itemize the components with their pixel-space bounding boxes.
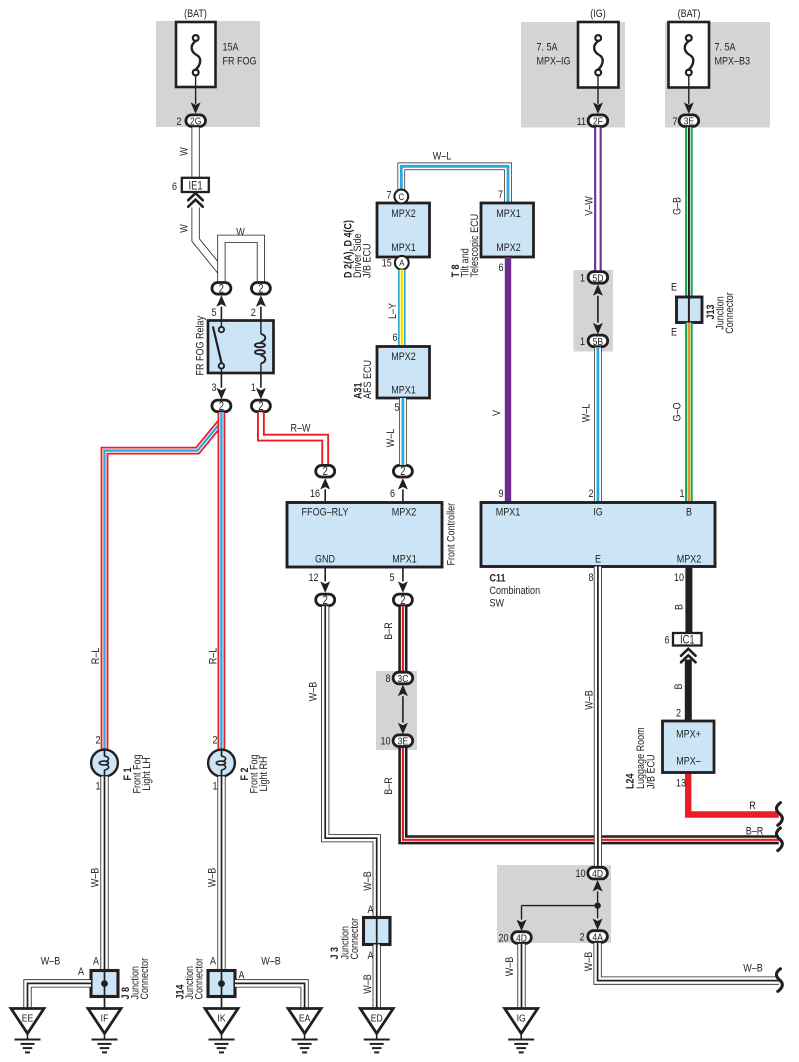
svg-text:Light LH: Light LH xyxy=(141,757,153,791)
pin 1 F1 xyxy=(95,781,100,793)
splice chevron below IC1 xyxy=(681,649,696,663)
svg-text:1: 1 xyxy=(212,781,217,793)
wire W-B from J3 to ED xyxy=(373,945,381,1009)
svg-text:R: R xyxy=(749,800,756,812)
label W upper xyxy=(179,147,191,156)
svg-text:2: 2 xyxy=(212,735,217,747)
wire fuse to connector 2G xyxy=(191,75,201,114)
connector 2 at FC MPX2 xyxy=(393,465,412,502)
ground ED xyxy=(360,1009,393,1053)
svg-text:3E: 3E xyxy=(684,116,695,128)
svg-text:8: 8 xyxy=(588,572,593,584)
svg-text:2: 2 xyxy=(176,116,181,128)
combination switch C11 box xyxy=(481,503,715,567)
label G-O xyxy=(672,402,684,421)
wire W from 2G to IE1 xyxy=(192,127,200,178)
label W-B C11 E xyxy=(584,690,596,710)
svg-text:1: 1 xyxy=(679,488,684,500)
svg-text:4A: 4A xyxy=(592,932,603,944)
svg-text:5B: 5B xyxy=(593,336,604,348)
connector circle A xyxy=(395,256,409,270)
svg-text:C11: C11 xyxy=(490,573,506,585)
connector 2 at FFOG-RLY xyxy=(316,465,335,502)
svg-text:1: 1 xyxy=(580,336,585,348)
connector 3C xyxy=(385,672,412,685)
wire J14 to IK xyxy=(221,997,223,1010)
ground EA xyxy=(288,1009,321,1053)
connector 5B xyxy=(580,335,608,348)
svg-text:2: 2 xyxy=(323,465,328,478)
label B lower xyxy=(673,683,685,689)
wire W-L from 5B to C11 IG xyxy=(594,347,602,502)
label W-B above J3 xyxy=(362,871,374,891)
svg-text:MPX1: MPX1 xyxy=(496,208,521,220)
svg-text:MPX+: MPX+ xyxy=(676,729,701,741)
wire W-B from F1 to J8 xyxy=(100,776,108,970)
relay switch contact xyxy=(213,321,224,374)
label B-R lower xyxy=(383,777,395,795)
splice arrow to 4D lower xyxy=(517,906,527,932)
svg-text:3: 3 xyxy=(211,382,216,394)
pin A below J3 xyxy=(367,950,373,962)
ECU D2 D4 pin labels xyxy=(391,208,416,254)
svg-text:W–B: W–B xyxy=(584,690,596,710)
label W-B IG xyxy=(504,956,516,976)
svg-text:10: 10 xyxy=(575,868,585,880)
label W-B F2 xyxy=(207,867,219,887)
connector 3E lower xyxy=(380,735,412,748)
label J13 xyxy=(705,292,736,334)
svg-text:W–B: W–B xyxy=(504,956,516,976)
ECU A31 pin labels xyxy=(391,351,416,397)
svg-text:E: E xyxy=(595,554,601,566)
junction node 4D block xyxy=(522,902,601,908)
ground IF xyxy=(88,1009,121,1053)
svg-text:2F: 2F xyxy=(593,116,603,128)
label V xyxy=(491,410,503,416)
svg-text:W–B: W–B xyxy=(261,956,281,968)
ECU T8 pin labels xyxy=(496,208,521,254)
label W-L top xyxy=(433,151,452,163)
label T8 xyxy=(450,214,481,278)
svg-text:2: 2 xyxy=(258,400,263,413)
svg-text:13: 13 xyxy=(676,778,686,790)
label W-L A31 xyxy=(385,428,397,447)
connector 2G xyxy=(176,115,205,128)
svg-text:IK: IK xyxy=(217,1013,226,1025)
pin 1 F2 xyxy=(212,781,217,793)
pin A right of J14 xyxy=(238,970,244,982)
svg-text:MPX1: MPX1 xyxy=(391,242,416,254)
break symbol W-B wire xyxy=(776,969,782,992)
svg-text:(BAT): (BAT) xyxy=(184,8,207,20)
svg-text:B: B xyxy=(673,683,685,689)
pin 7 T8 xyxy=(498,189,503,201)
svg-text:7. 5A: 7. 5A xyxy=(537,42,558,54)
ECU A31 box xyxy=(377,347,430,399)
svg-text:7: 7 xyxy=(498,189,503,201)
svg-text:J/B ECU: J/B ECU xyxy=(646,754,658,789)
pin 5 A31 xyxy=(394,402,399,414)
pin 6 A31 xyxy=(392,332,397,344)
svg-text:Connector: Connector xyxy=(349,917,361,959)
wire W-L loop D to T8 xyxy=(401,166,508,203)
pin 9 C11 xyxy=(498,488,503,500)
svg-text:SW: SW xyxy=(490,598,505,610)
front controller box xyxy=(287,503,442,568)
splice arrow below 4D xyxy=(593,880,603,902)
svg-text:3C: 3C xyxy=(397,673,408,685)
svg-text:V–W: V–W xyxy=(584,196,596,216)
connector IC1 xyxy=(664,633,701,647)
connector 4A xyxy=(579,931,607,944)
relay coil xyxy=(255,321,265,374)
label J3 xyxy=(329,917,361,959)
label W-B below J3 xyxy=(362,974,374,994)
svg-text:Telescopic ECU: Telescopic ECU xyxy=(469,214,481,278)
splice arrow to 4A xyxy=(593,906,603,930)
svg-text:12: 12 xyxy=(308,572,318,584)
junction connector J14 xyxy=(208,971,235,997)
connector 4D lower xyxy=(498,932,531,945)
svg-text:IE1: IE1 xyxy=(189,180,203,193)
svg-text:Connector: Connector xyxy=(139,957,151,999)
svg-text:6: 6 xyxy=(390,488,395,500)
svg-text:MPX–: MPX– xyxy=(676,756,701,768)
splice arrows 3C to 3E xyxy=(398,685,408,735)
svg-text:15: 15 xyxy=(382,258,392,270)
svg-text:IF: IF xyxy=(101,1013,109,1025)
label F1 xyxy=(122,754,153,793)
label L24 xyxy=(625,727,658,789)
pin A above J14 xyxy=(210,956,216,968)
svg-text:20: 20 xyxy=(498,933,508,945)
label (BAT) left xyxy=(184,8,207,20)
ECU D2 D4 box xyxy=(377,203,430,257)
connector block background 4D-4A xyxy=(497,865,611,943)
fuse 15A FR FOG xyxy=(176,22,216,87)
svg-text:4D: 4D xyxy=(592,868,603,880)
label R-L right xyxy=(208,647,220,664)
connector circle C xyxy=(394,190,408,204)
svg-text:4D: 4D xyxy=(516,933,527,945)
svg-text:B–R: B–R xyxy=(383,622,395,640)
ground IG xyxy=(505,1009,538,1053)
svg-text:FR FOG: FR FOG xyxy=(223,56,257,68)
relay FR FOG box xyxy=(208,321,274,374)
svg-text:IG: IG xyxy=(593,507,603,519)
svg-text:J/B ECU: J/B ECU xyxy=(362,243,374,278)
svg-text:16: 16 xyxy=(310,488,320,500)
svg-text:2: 2 xyxy=(400,465,405,478)
svg-text:W–B: W–B xyxy=(743,963,763,975)
svg-text:10: 10 xyxy=(380,736,390,748)
wire fuse B3 to 3E xyxy=(684,75,694,114)
pin 3 relay xyxy=(211,382,216,394)
fuse block background FR FOG xyxy=(156,21,260,127)
wire W-B branch J8 to EE xyxy=(28,983,92,1008)
pin 8 C11 xyxy=(588,572,593,584)
wire R-L main to F2 xyxy=(217,412,225,750)
svg-text:B–R: B–R xyxy=(383,777,395,795)
label (BAT) right xyxy=(678,8,701,20)
svg-text:2: 2 xyxy=(258,282,263,295)
wire L-Y from circle A to A31 xyxy=(398,270,406,347)
svg-text:2G: 2G xyxy=(190,116,201,128)
connector 2 above relay pin 2 xyxy=(251,282,270,320)
svg-text:5: 5 xyxy=(394,402,399,414)
svg-text:W–B: W–B xyxy=(362,974,374,994)
pin A left of J8 xyxy=(78,966,84,978)
wire fuse IG to 2F xyxy=(593,75,603,114)
svg-text:2: 2 xyxy=(219,400,224,413)
junction connector J13 xyxy=(677,297,703,323)
svg-text:W–B: W–B xyxy=(583,951,595,971)
svg-text:2: 2 xyxy=(400,594,405,607)
connector 3E top xyxy=(672,115,698,128)
pin 16 xyxy=(310,488,320,500)
ECU L24 box xyxy=(663,721,715,773)
svg-text:IG: IG xyxy=(517,1013,526,1025)
break symbol B-R wire xyxy=(776,828,782,851)
svg-text:GND: GND xyxy=(315,554,335,566)
label W-B bottom right xyxy=(743,963,763,975)
junction connector J8 xyxy=(91,971,118,997)
svg-text:MPX–IG: MPX–IG xyxy=(537,56,571,68)
label W-B F1 xyxy=(90,867,102,887)
wire V from T8 to C11 xyxy=(505,257,511,503)
label B upper xyxy=(674,604,686,610)
svg-text:7: 7 xyxy=(672,116,677,128)
svg-text:MPX1: MPX1 xyxy=(391,385,416,397)
pin 10 C11 xyxy=(674,572,684,584)
pin E below J13 xyxy=(671,327,677,339)
svg-text:Combination: Combination xyxy=(490,585,541,597)
svg-text:W–B: W–B xyxy=(362,871,374,891)
wire B-R from connector 3E to right edge xyxy=(403,747,779,840)
svg-text:C: C xyxy=(398,191,404,202)
label R xyxy=(749,800,756,812)
svg-text:Front Controller: Front Controller xyxy=(446,502,458,565)
wire J8 to IF xyxy=(104,997,106,1010)
svg-text:10: 10 xyxy=(674,572,684,584)
pin 2 F1 xyxy=(95,735,100,747)
svg-text:9: 9 xyxy=(498,488,503,500)
wire W-B from C11 E to 4D xyxy=(594,567,602,868)
svg-text:MPX2: MPX2 xyxy=(677,554,702,566)
svg-text:B: B xyxy=(686,507,692,519)
wire W-L from A31 to FC xyxy=(399,398,407,465)
wire W-B from 4D to IG ground xyxy=(517,944,525,1008)
wire R-L branch to F1 xyxy=(105,422,222,750)
pin 1 relay xyxy=(251,382,256,394)
splice arrows 5D to 5B xyxy=(593,284,603,334)
svg-text:E: E xyxy=(671,282,677,294)
ECU T8 box xyxy=(481,203,534,257)
svg-text:5: 5 xyxy=(389,572,394,584)
front controller pin labels xyxy=(302,507,418,566)
wire B-R from FC MPX1 to 3C xyxy=(398,606,407,672)
ground EE xyxy=(11,1009,44,1053)
label L-Y xyxy=(387,303,399,319)
pin 2 relay xyxy=(251,307,256,319)
connector 2 above relay pin 5 xyxy=(212,282,231,320)
fuse 7.5A MPX-IG xyxy=(578,22,619,88)
connector 2F xyxy=(577,115,608,128)
label W middle xyxy=(179,224,191,233)
label B-R right xyxy=(746,826,764,838)
svg-text:V: V xyxy=(491,410,503,416)
svg-text:1: 1 xyxy=(580,273,585,285)
connector block background 5D-5B xyxy=(574,270,614,352)
svg-text:8: 8 xyxy=(385,673,390,685)
break symbol R wire xyxy=(776,803,782,826)
svg-text:W–B: W–B xyxy=(41,956,61,968)
wire G-O from J13 to C11 B xyxy=(685,323,693,503)
svg-text:11: 11 xyxy=(577,116,587,128)
svg-text:A: A xyxy=(78,966,84,978)
svg-text:2: 2 xyxy=(219,282,224,295)
label J14 xyxy=(175,957,206,999)
svg-text:A: A xyxy=(367,904,373,916)
svg-text:ED: ED xyxy=(371,1013,383,1025)
svg-text:6: 6 xyxy=(172,181,177,193)
svg-text:G–O: G–O xyxy=(672,402,684,421)
label J8 xyxy=(120,957,151,999)
svg-text:Connector: Connector xyxy=(194,957,206,999)
fuse 7.5A MPX-B3 xyxy=(669,22,710,88)
pin A above J8 xyxy=(93,956,99,968)
svg-text:W: W xyxy=(236,227,245,239)
svg-text:5: 5 xyxy=(211,307,216,319)
svg-text:R–L: R–L xyxy=(90,647,102,664)
svg-text:IC1: IC1 xyxy=(680,633,695,646)
pin 6 FC xyxy=(390,488,395,500)
wire R from L24 MPX- to right edge xyxy=(688,773,779,815)
svg-text:6: 6 xyxy=(664,635,669,647)
C11 pin labels xyxy=(496,507,702,566)
svg-text:E: E xyxy=(671,327,677,339)
front fog light RH F2 xyxy=(208,750,235,777)
wire G-B from 3E to J13 xyxy=(685,127,693,297)
label R-L left xyxy=(90,647,102,664)
svg-text:7: 7 xyxy=(386,190,391,202)
label 15A FR FOG xyxy=(223,42,257,68)
wire W-B from F2 to J14 xyxy=(217,776,225,970)
label F2 xyxy=(239,754,270,793)
svg-text:R–W: R–W xyxy=(290,423,310,435)
svg-text:W–B: W–B xyxy=(308,681,320,701)
svg-text:5D: 5D xyxy=(592,273,603,285)
svg-text:3E: 3E xyxy=(398,736,409,748)
svg-text:6: 6 xyxy=(392,332,397,344)
svg-text:2: 2 xyxy=(676,708,681,720)
svg-text:FR FOG Relay: FR FOG Relay xyxy=(195,316,207,376)
junction connector J3 xyxy=(364,918,391,945)
svg-text:W: W xyxy=(179,224,191,233)
svg-text:B–R: B–R xyxy=(746,826,764,838)
svg-text:B: B xyxy=(674,604,686,610)
svg-text:2: 2 xyxy=(588,488,593,500)
pin 13 L24 xyxy=(676,778,686,790)
label 7.5A MPX-IG xyxy=(537,42,571,68)
label Front Controller xyxy=(446,502,458,565)
label V-W xyxy=(584,196,596,216)
wire W-B from FC GND to J3 xyxy=(325,606,377,917)
svg-text:AFS ECU: AFS ECU xyxy=(362,360,374,399)
label R-W xyxy=(290,423,310,435)
svg-text:EA: EA xyxy=(299,1013,311,1025)
connector block background 3C-3E xyxy=(376,671,417,750)
svg-text:W: W xyxy=(179,147,191,156)
fuse block background MPX-B3 xyxy=(665,22,770,128)
svg-text:1: 1 xyxy=(251,382,256,394)
connector 2 below relay pin 1 xyxy=(251,373,270,413)
svg-text:MPX1: MPX1 xyxy=(392,554,417,566)
svg-text:R–L: R–L xyxy=(208,647,220,664)
pin 1 C11 xyxy=(679,488,684,500)
svg-text:MPX2: MPX2 xyxy=(391,351,416,363)
svg-text:MPX2: MPX2 xyxy=(392,507,417,519)
pin 12 xyxy=(308,572,318,584)
svg-text:A: A xyxy=(210,956,216,968)
pin 2 F2 xyxy=(212,735,217,747)
label G-B xyxy=(672,197,684,215)
ground IK xyxy=(205,1009,238,1053)
pin 2 L24 xyxy=(676,708,681,720)
svg-text:A: A xyxy=(93,956,99,968)
pin 6 T8 xyxy=(498,262,503,274)
pin 7 circle C xyxy=(386,190,391,202)
svg-text:7. 5A: 7. 5A xyxy=(715,42,736,54)
svg-text:Connector: Connector xyxy=(724,292,736,334)
label W loop xyxy=(236,227,245,239)
svg-text:A: A xyxy=(399,257,404,268)
wire V-W from 2F to 5D xyxy=(594,127,602,271)
wire R-W relay to front controller xyxy=(261,412,325,465)
svg-text:2: 2 xyxy=(323,594,328,607)
svg-text:MPX2: MPX2 xyxy=(496,242,521,254)
svg-text:MPX2: MPX2 xyxy=(391,208,416,220)
wire W branch loop to second connector xyxy=(221,239,261,283)
svg-text:W–L: W–L xyxy=(581,403,593,422)
svg-text:W–L: W–L xyxy=(385,428,397,447)
pin 2 C11 xyxy=(588,488,593,500)
wire B from C11 MPX2 to IC1 xyxy=(685,567,692,634)
svg-text:G–B: G–B xyxy=(672,197,684,215)
fuse block background MPX-IG xyxy=(521,22,625,128)
svg-text:W–B: W–B xyxy=(207,867,219,887)
pin A above J3 xyxy=(367,904,373,916)
svg-text:Light RH: Light RH xyxy=(258,756,270,791)
label C11 Combination SW xyxy=(490,573,541,610)
svg-text:15A: 15A xyxy=(223,42,239,54)
svg-text:1: 1 xyxy=(95,781,100,793)
connector 5D xyxy=(580,272,608,285)
label W-B gnd xyxy=(308,681,320,701)
svg-text:(IG): (IG) xyxy=(590,8,606,20)
connector 2 below FC GND xyxy=(316,567,335,607)
label W-B 4A xyxy=(583,951,595,971)
label B-R upper xyxy=(383,622,395,640)
svg-text:W–L: W–L xyxy=(433,151,452,163)
svg-text:2: 2 xyxy=(95,735,100,747)
splice chevron below IE1 xyxy=(188,193,203,207)
front fog light LH F1 xyxy=(91,750,118,777)
wire W-B from 4A to right edge xyxy=(598,943,779,981)
svg-text:(BAT): (BAT) xyxy=(678,8,701,20)
label W-B EA xyxy=(261,956,281,968)
